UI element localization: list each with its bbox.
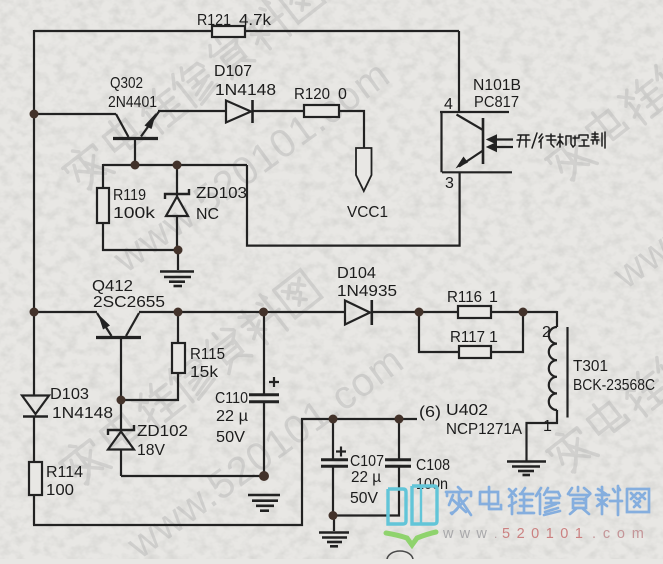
watermark hanzi left-bottom <box>54 266 324 491</box>
resistor R117 <box>459 346 491 358</box>
svg-text:www: www <box>442 526 493 542</box>
wire Q302 emitter to D107 <box>158 110 226 112</box>
svg-text:R116: R116 <box>447 289 482 306</box>
svg-text:C110: C110 <box>215 390 248 407</box>
svg-text:R120: R120 <box>294 86 330 103</box>
ground G2 <box>248 495 280 511</box>
svg-text:R121: R121 <box>197 12 231 29</box>
wire R116 to T301 node <box>491 311 557 313</box>
svg-text:R119: R119 <box>113 187 146 204</box>
svg-text:C107: C107 <box>350 453 384 470</box>
opto phototransistor <box>456 115 484 169</box>
svg-text:N101B: N101B <box>473 77 521 94</box>
svg-text:BCK-23568C: BCK-23568C <box>573 377 655 394</box>
junction middle rail / C110 <box>259 308 268 317</box>
wire C107 bottom to ground <box>332 467 334 516</box>
resistor R120 <box>304 105 339 117</box>
junction D104 cathode / R116 R117 left <box>415 308 424 317</box>
wire R120 to VCC1 <box>339 111 364 148</box>
svg-text:Q412: Q412 <box>92 278 133 295</box>
svg-text:1N4148: 1N4148 <box>215 82 276 99</box>
svg-text:15k: 15k <box>190 364 219 381</box>
svg-text:1N4935: 1N4935 <box>337 283 397 300</box>
wire bottom rail <box>33 419 417 525</box>
junction Q302 base node <box>131 161 140 170</box>
wire ZD102 bottom to C110 ground line <box>121 475 264 477</box>
junction ZD103 bottom / ground <box>174 246 183 255</box>
zener ZD102 <box>108 400 134 476</box>
junction pin6 line / C108 <box>395 415 404 424</box>
wire R119/ZD103 top rail <box>103 164 247 166</box>
wire R115 branch <box>177 312 179 343</box>
wire ZD103 node to ground G1 <box>177 250 179 270</box>
transformer T301 winding <box>527 311 568 461</box>
capacitor C107 <box>321 447 348 467</box>
svg-text:NCP1271A: NCP1271A <box>446 421 522 438</box>
svg-text:4: 4 <box>444 96 453 113</box>
logo book icon <box>388 486 437 524</box>
svg-text:18V: 18V <box>137 442 165 459</box>
wire Q302 collector branch <box>34 113 116 115</box>
wire R117 left leg <box>419 312 459 352</box>
svg-text:D104: D104 <box>337 265 376 282</box>
diode D107 <box>226 100 253 123</box>
wire middle rail Q412 collector to D104 <box>139 311 345 313</box>
svg-text:ZD102: ZD102 <box>137 423 188 440</box>
transistor Q302 <box>113 112 159 166</box>
junction left rail / middle rail <box>30 308 39 317</box>
svg-text:NC: NC <box>196 206 219 223</box>
svg-text:R114: R114 <box>46 464 83 481</box>
wire opto pin4 stem <box>458 31 460 112</box>
wire C107 branch <box>332 419 334 460</box>
svg-text:D103: D103 <box>50 386 89 403</box>
diode D104 <box>345 300 372 325</box>
wire C110 bottom to ground node <box>263 403 265 480</box>
svg-text:.: . <box>494 527 497 541</box>
svg-text:VCC1: VCC1 <box>347 204 388 221</box>
junction middle rail / R115 <box>174 308 183 317</box>
transistor Q412 <box>96 313 141 400</box>
svg-text:ZD103: ZD103 <box>196 185 247 202</box>
wire R119 left leg <box>102 164 104 189</box>
watermark hanzi top-left <box>57 0 327 196</box>
svg-text:50V: 50V <box>216 429 245 446</box>
svg-text:R115: R115 <box>190 346 225 363</box>
svg-text:1N4148: 1N4148 <box>52 405 113 422</box>
svg-text:Q302: Q302 <box>110 75 143 92</box>
wire C108 branch <box>398 419 400 460</box>
svg-text:2: 2 <box>542 324 551 341</box>
ground G1 <box>160 272 194 287</box>
logo book green swoosh <box>386 532 436 545</box>
svg-text:3: 3 <box>445 175 454 192</box>
wire middle rail <box>34 311 97 313</box>
junction C107 C108 bottom / ground <box>329 511 338 520</box>
logo hanzi 家电维修资料网 <box>446 486 649 515</box>
capacitor C108 <box>385 460 411 466</box>
wire R115 bottom to base node <box>121 373 178 400</box>
junction R116 R117 right / T301 <box>519 308 528 317</box>
watermark hanzi right-top <box>540 0 663 187</box>
ground G3 <box>333 515 335 531</box>
svg-text:22 µ: 22 µ <box>351 469 381 486</box>
wire D107 to R120 <box>253 110 304 112</box>
svg-text:0: 0 <box>338 86 347 103</box>
junction pin6 line / C107 <box>329 415 338 424</box>
svg-text:1: 1 <box>543 418 552 435</box>
svg-text:.com: .com <box>592 526 651 542</box>
svg-text:C108: C108 <box>416 457 450 474</box>
svg-text:520101: 520101 <box>502 526 589 542</box>
diode D103 <box>22 396 49 417</box>
resistor R115 <box>172 343 185 373</box>
svg-text:U402: U402 <box>446 402 488 419</box>
svg-text:2N4401: 2N4401 <box>108 94 157 111</box>
junction ZD103 top <box>173 161 182 170</box>
svg-text:4.7k: 4.7k <box>239 12 272 29</box>
wire left rail <box>33 30 35 396</box>
svg-text:2SC2655: 2SC2655 <box>93 294 165 311</box>
page circle bottom <box>387 551 413 564</box>
capacitor C110 <box>249 377 279 402</box>
watermark hanzi right-bottom <box>541 254 663 479</box>
svg-text:T301: T301 <box>573 358 608 375</box>
opto light arrows <box>487 135 513 152</box>
svg-text:D107: D107 <box>214 63 252 80</box>
svg-text:1: 1 <box>489 329 498 346</box>
resistor R114 <box>29 462 42 495</box>
svg-text:1: 1 <box>489 289 498 306</box>
resistor R119 <box>97 188 109 223</box>
ground G4 <box>507 462 546 476</box>
junction Q412 base / R115 / ZD102 <box>117 396 126 405</box>
resistor R116 <box>458 306 491 318</box>
VCC1 symbol <box>356 148 372 191</box>
svg-text:R117: R117 <box>450 329 485 346</box>
wire R117 right leg <box>491 312 523 352</box>
wire C108 bottom joining C107 node <box>333 467 399 516</box>
svg-text:50V: 50V <box>350 490 378 507</box>
label 开/待机控制 <box>517 132 605 148</box>
wire opto pin3 to base node rail <box>247 165 460 246</box>
opto coupler N101B box <box>440 112 512 172</box>
junction left rail / Q302 collector <box>30 110 39 119</box>
zener ZD103 <box>165 165 189 250</box>
svg-text:22 µ: 22 µ <box>216 408 248 425</box>
wire top rail <box>34 30 459 32</box>
svg-text:100k: 100k <box>113 205 156 222</box>
junction ZD102 line / C110 bottom / ground <box>259 471 269 481</box>
svg-text:PC817: PC817 <box>474 94 519 111</box>
wire D104 to R116 node <box>372 311 458 313</box>
wire R119 bottom leg <box>103 223 178 250</box>
svg-text:(6): (6) <box>419 404 441 421</box>
wire left rail lower through R114 to bottom rail <box>33 417 35 525</box>
svg-text:100: 100 <box>46 482 74 499</box>
wire C110 branch <box>263 312 265 394</box>
resistor R121 <box>212 26 245 37</box>
